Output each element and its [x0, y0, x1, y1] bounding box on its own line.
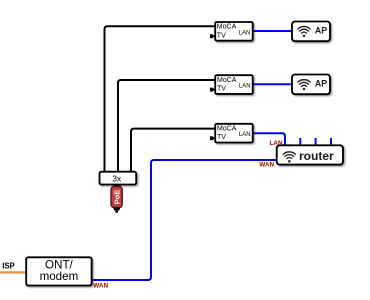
svg-text:WAN: WAN — [93, 282, 108, 289]
svg-text:AP: AP — [315, 79, 327, 89]
label WAN at router — [259, 161, 274, 168]
MoCA adapter U1 — [210, 22, 253, 41]
router antenna ticks — [300, 138, 331, 145]
svg-text:PoE: PoE — [112, 190, 121, 205]
svg-text:ISP: ISP — [2, 261, 15, 270]
svg-text:TV: TV — [217, 86, 226, 93]
svg-text:3x: 3x — [112, 173, 122, 183]
svg-text:router: router — [299, 149, 334, 163]
svg-text:TV: TV — [217, 32, 226, 39]
label LAN at router — [270, 140, 283, 147]
svg-text:MoCA: MoCA — [217, 77, 237, 84]
label WAN at ONT — [93, 282, 108, 289]
PoE injector stub — [114, 184, 121, 188]
PoE plug — [113, 208, 121, 213]
svg-text:LAN: LAN — [239, 84, 251, 90]
PoE injector — [111, 187, 122, 208]
wire splitter to MoCA TV 3 — [131, 129, 215, 172]
wire splitter to MoCA TV 2 — [118, 80, 215, 172]
wire splitter to MoCA TV 1 — [105, 26, 215, 171]
splitter 3x — [100, 172, 137, 185]
wire ISP to ONT — [0, 271, 26, 273]
wire MoCA3 LAN to router LAN — [253, 133, 285, 146]
label ISP — [2, 261, 15, 270]
router — [277, 145, 343, 164]
wire MoCA2 LAN to AP2 — [253, 83, 292, 85]
svg-text:LAN: LAN — [239, 132, 251, 138]
wire ONT WAN to router WAN — [92, 160, 277, 280]
svg-text:WAN: WAN — [259, 161, 274, 168]
ONT/modem — [26, 257, 91, 285]
svg-text:modem: modem — [40, 270, 79, 283]
svg-text:MoCA: MoCA — [217, 24, 237, 31]
access point AP2 — [292, 75, 330, 95]
svg-text:AP: AP — [315, 26, 327, 36]
access point AP1 — [292, 22, 330, 42]
svg-text:MoCA: MoCA — [217, 126, 237, 133]
MoCA adapter U3 — [210, 124, 253, 143]
svg-text:LAN: LAN — [270, 140, 283, 147]
wire MoCA1 LAN to AP1 — [253, 30, 292, 32]
svg-text:TV: TV — [217, 134, 226, 141]
MoCA adapter U2 — [210, 75, 253, 94]
svg-text:LAN: LAN — [239, 30, 251, 36]
